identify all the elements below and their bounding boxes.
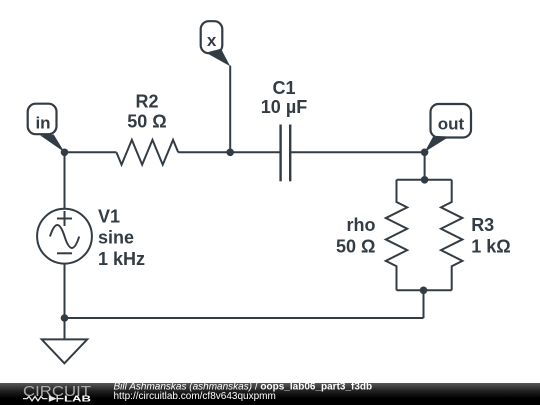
resistor R3 xyxy=(441,180,462,290)
sine symbol inside V1 xyxy=(50,225,79,248)
svg-text:rho: rho xyxy=(347,215,376,235)
wire: parallel bottom down to bottom rail xyxy=(423,290,425,318)
wire: R2 right lead to node x junction xyxy=(178,151,230,153)
junction dot at node out xyxy=(421,149,429,157)
plus sign of V1 xyxy=(57,211,72,226)
svg-text:out: out xyxy=(438,114,465,133)
junction dot at parallel bottom xyxy=(420,287,428,295)
junction dot at node in xyxy=(61,149,69,157)
svg-text:R2: R2 xyxy=(135,92,158,112)
svg-text:x: x xyxy=(207,31,217,50)
wire: in junction to R2 left lead xyxy=(65,151,117,153)
node in pointer xyxy=(40,135,65,153)
resistor rho xyxy=(386,180,407,290)
svg-text:sine: sine xyxy=(98,228,134,248)
svg-text:1 kHz: 1 kHz xyxy=(98,249,145,269)
junction dot at parallel top xyxy=(421,176,429,184)
svg-text:10 µF: 10 µF xyxy=(261,97,307,117)
node out label box xyxy=(431,104,472,138)
wire: in junction down to V1 top xyxy=(64,152,66,208)
svg-text:V1: V1 xyxy=(98,207,120,227)
wire: ground stem xyxy=(64,318,66,339)
wire: out junction down to parallel top bar xyxy=(424,152,426,180)
wire: parallel top bar xyxy=(397,179,452,181)
svg-text:50 Ω: 50 Ω xyxy=(127,112,166,132)
svg-text:C1: C1 xyxy=(272,78,295,98)
wire: parallel bottom bar xyxy=(397,289,452,291)
svg-text:R3: R3 xyxy=(471,215,494,235)
wire: C1 right plate to out junction xyxy=(290,151,424,153)
wire: node x stem down to main wire xyxy=(229,66,231,153)
voltage source V1 xyxy=(37,209,92,264)
CircuitLab logo zigzag and diode xyxy=(23,395,57,402)
junction dot at node x xyxy=(226,149,234,157)
svg-text:LAB: LAB xyxy=(64,394,91,404)
svg-text:1 kΩ: 1 kΩ xyxy=(471,237,510,257)
wire: V1 bottom to bottom rail xyxy=(64,264,66,318)
node in label box xyxy=(28,104,57,135)
ground xyxy=(42,339,87,363)
wire: node x junction to C1 left plate xyxy=(230,151,280,153)
svg-text:in: in xyxy=(35,114,50,133)
wire: bottom rail xyxy=(65,317,424,319)
minus sign of V1 xyxy=(57,252,72,254)
node out pointer xyxy=(425,136,450,152)
capacitor C1 xyxy=(281,125,291,182)
svg-text:50 Ω: 50 Ω xyxy=(336,237,375,257)
svg-text:http://circuitlab.com/cf8v643q: http://circuitlab.com/cf8v643quxpmm xyxy=(114,391,276,402)
junction dot at ground tap xyxy=(61,314,69,322)
resistor R2 xyxy=(116,140,178,165)
node x label box xyxy=(201,21,223,53)
node x pointer xyxy=(206,49,230,67)
